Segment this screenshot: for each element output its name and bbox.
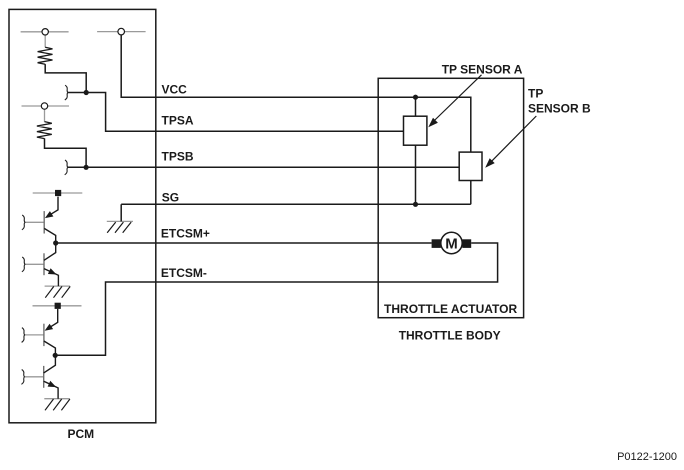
svg-text:TPSA: TPSA	[162, 114, 194, 128]
svg-text:M: M	[445, 235, 458, 252]
svg-text:ETCSM+: ETCSM+	[161, 226, 210, 240]
svg-text:TP: TP	[528, 86, 543, 100]
svg-text:SENSOR B: SENSOR B	[528, 102, 591, 116]
svg-text:VCC: VCC	[162, 83, 188, 97]
svg-text:PCM: PCM	[67, 427, 94, 441]
svg-text:THROTTLE BODY: THROTTLE BODY	[399, 328, 501, 342]
svg-text:SG: SG	[162, 191, 179, 205]
svg-text:THROTTLE ACTUATOR: THROTTLE ACTUATOR	[384, 302, 517, 316]
svg-text:P0122-1200: P0122-1200	[617, 451, 677, 463]
svg-text:ETCSM-: ETCSM-	[161, 266, 207, 280]
svg-text:TPSB: TPSB	[162, 150, 194, 164]
svg-text:TP SENSOR A: TP SENSOR A	[442, 63, 523, 77]
